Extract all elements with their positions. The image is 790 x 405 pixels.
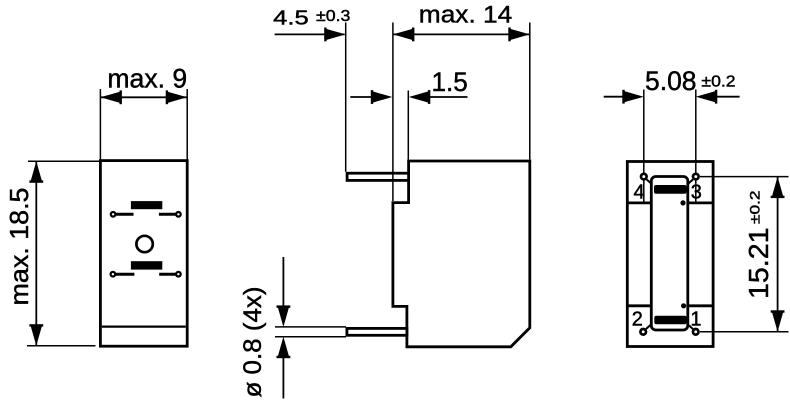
dim max14 right extension line bbox=[529, 23, 531, 160]
left view: upper right pin dot bbox=[175, 211, 182, 218]
dim 5.08 right arrow line bbox=[716, 96, 740, 98]
dim dia0.8 lower arrow bbox=[277, 337, 291, 359]
left view: lower right pin dot bbox=[175, 271, 182, 278]
left view: upper contact bar bbox=[131, 201, 162, 209]
dim 1.5 right arrow line bbox=[428, 96, 468, 98]
dim 5.08 left arrow bbox=[622, 90, 644, 104]
svg-text:1.5: 1.5 bbox=[432, 67, 468, 97]
dim 4.5 dimension line bbox=[275, 33, 345, 35]
right view: pin 2 tick bbox=[646, 324, 652, 329]
left view: lower left wire bbox=[113, 273, 134, 276]
svg-text:3: 3 bbox=[691, 182, 702, 204]
svg-text:±0.2: ±0.2 bbox=[701, 74, 735, 91]
right view: pin 3 tick bbox=[688, 179, 693, 184]
svg-text:max. 9: max. 9 bbox=[107, 64, 187, 94]
dim max14 dimension line bbox=[393, 33, 530, 35]
dim max9 right extension line bbox=[186, 89, 188, 160]
right view: pin 1 tick bbox=[687, 324, 693, 329]
right view: outer body outline (bottom view) bbox=[627, 162, 713, 347]
dim 1.5 left arrow bbox=[371, 90, 393, 104]
dim dia0.8 lower arrow line bbox=[282, 357, 284, 399]
dim max9 right arrow bbox=[166, 90, 188, 104]
svg-text:±0.2: ±0.2 bbox=[748, 191, 763, 225]
right view: center channel (rounded) bbox=[651, 177, 688, 331]
dim max14 right arrow bbox=[508, 28, 530, 42]
dim max9 dimension line bbox=[100, 96, 187, 98]
left view: upper right wire bbox=[159, 213, 179, 216]
dim max18.5 bottom extension line bbox=[27, 345, 96, 347]
svg-text:±0.3: ±0.3 bbox=[316, 8, 351, 25]
dim 15.21 top arrow bbox=[771, 177, 785, 199]
right view: bottom contact bar bbox=[654, 316, 686, 325]
dim max14 left arrow bbox=[393, 28, 415, 42]
dim dia0.8 upper arrow bbox=[277, 305, 291, 327]
dim max9 left extension line bbox=[99, 89, 101, 160]
dim 5.08 left extension line through pin 4 bbox=[643, 90, 645, 203]
dim 4.5 extension line at pin tip bbox=[345, 23, 347, 172]
dim extension line at body left face bbox=[392, 23, 394, 202]
middle view: bottom pin (side) bbox=[347, 328, 407, 335]
dim max18.5 dimension line bbox=[35, 161, 37, 345]
right view: lower divider line bbox=[627, 304, 713, 307]
dim max18.5 top extension line bbox=[28, 160, 99, 162]
svg-text:2: 2 bbox=[632, 308, 643, 330]
svg-text:max. 18.5: max. 18.5 bbox=[6, 188, 34, 306]
right view: pin 2 circle bbox=[640, 329, 646, 335]
dim 4.5 arrow bbox=[324, 28, 346, 42]
right view: upper index dot bbox=[680, 200, 685, 205]
dim 15.21 bottom leader line from pin 1 bbox=[700, 331, 789, 333]
right view: lower index dot bbox=[681, 303, 686, 308]
svg-text:max. 14: max. 14 bbox=[419, 2, 513, 29]
dim dia0.8 upper arrow line bbox=[282, 257, 284, 306]
dim dia0.8 top edge extension line bbox=[275, 326, 346, 328]
svg-text:4: 4 bbox=[633, 182, 644, 204]
right view: upper divider line bbox=[627, 201, 713, 204]
dim max9 left arrow bbox=[100, 90, 122, 104]
dim max18.5 top arrow bbox=[29, 161, 43, 183]
right view: pin 1 circle bbox=[693, 329, 699, 335]
dim 15.21 bottom arrow bbox=[771, 310, 785, 332]
dim max18.5 bottom arrow bbox=[29, 324, 43, 346]
left view: component body outline (top view) bbox=[100, 161, 187, 347]
left view: center circle bbox=[136, 236, 152, 252]
left view: upper left pin dot bbox=[110, 211, 117, 218]
dim 5.08 right arrow bbox=[696, 90, 718, 104]
right view: top contact bar bbox=[654, 185, 687, 194]
dim 1.5 right extension line bbox=[407, 91, 409, 160]
middle view: top pin (side) bbox=[347, 173, 409, 180]
dim 5.08 left arrow line bbox=[604, 96, 623, 98]
left view: lower left pin dot bbox=[110, 271, 117, 278]
left view: lower contact bar bbox=[131, 261, 162, 269]
left view: upper left wire bbox=[113, 213, 134, 216]
left view: base divider line bbox=[102, 326, 186, 328]
dim 15.21 dimension line bbox=[777, 177, 779, 332]
middle view: component body outline (side view with chamfer) bbox=[393, 161, 530, 347]
right view: pin 4 tick bbox=[647, 179, 652, 184]
left view: lower right wire bbox=[159, 273, 178, 276]
dim 15.21 top leader line from pin 3 bbox=[700, 176, 789, 178]
svg-text:15.21: 15.21 bbox=[743, 228, 774, 300]
svg-text:ø 0.8 (4x): ø 0.8 (4x) bbox=[239, 287, 267, 398]
dim dia0.8 bottom edge extension line bbox=[275, 336, 346, 338]
svg-text:1: 1 bbox=[690, 308, 701, 330]
dim 5.08 right extension line through pin 3 bbox=[695, 90, 697, 203]
dim 1.5 right arrow bbox=[409, 90, 431, 104]
svg-text:4.5: 4.5 bbox=[273, 7, 309, 30]
dim 1.5 left arrow line bbox=[350, 96, 372, 98]
right view: pin 3 circle bbox=[693, 174, 699, 180]
svg-text:5.08: 5.08 bbox=[645, 66, 697, 96]
right view: pin 4 circle bbox=[641, 174, 647, 180]
